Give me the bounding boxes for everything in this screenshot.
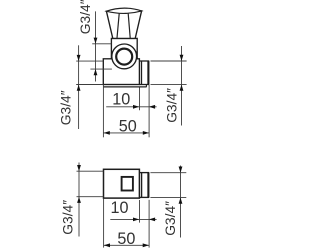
dim 50 arrow left bbox=[104, 131, 110, 135]
plan dim 10 line bbox=[110, 218, 156, 220]
plan dim 50 arrow left bbox=[104, 243, 110, 247]
union nut outer circle bbox=[112, 44, 137, 69]
union nut inner ring bbox=[116, 49, 132, 65]
svg-text:10: 10 bbox=[111, 199, 129, 217]
plan dim left line bbox=[78, 163, 80, 237]
plan dim 50 arrow right bbox=[143, 243, 149, 247]
plan dim 10 arrow right bbox=[133, 218, 139, 222]
ext line left upper bbox=[76, 60, 103, 62]
svg-text:50: 50 bbox=[117, 230, 135, 248]
plan dim right line bbox=[180, 166, 182, 238]
plan dim right arrow down bbox=[179, 167, 183, 173]
outlet flange inner edge bbox=[141, 61, 143, 85]
outlet stub top edge bbox=[139, 60, 149, 62]
ext line outlet bottom right bbox=[151, 84, 187, 86]
dim left arrow down bbox=[77, 55, 81, 61]
ext line nut bottom bbox=[90, 68, 112, 70]
handle inner facet left bbox=[117, 14, 119, 38]
dim right arrow down bbox=[180, 55, 184, 61]
plan dim right arrow up bbox=[179, 198, 183, 204]
ext line outlet end bbox=[148, 85, 150, 138]
dim 10 arrow left bbox=[149, 105, 155, 109]
svg-text:G3/4″: G3/4″ bbox=[58, 90, 73, 125]
dim left arrow up bbox=[77, 85, 81, 91]
dim right G3/4 line bbox=[181, 46, 183, 126]
svg-text:G3/4″: G3/4″ bbox=[78, 0, 93, 34]
svg-text:G3/4″: G3/4″ bbox=[61, 200, 76, 235]
svg-text:G3/4″: G3/4″ bbox=[165, 88, 180, 123]
dim nut G3/4 line bbox=[95, 11, 97, 81]
dim 10 arrow right bbox=[133, 105, 139, 109]
plan ext outlet root bbox=[139, 200, 141, 223]
valve bonnet collar bbox=[111, 38, 137, 58]
base plate right edge bbox=[145, 85, 147, 88]
plan body bbox=[104, 169, 140, 198]
ext line collar bottom bbox=[92, 43, 111, 45]
svg-text:10: 10 bbox=[112, 91, 130, 109]
dim 50 line bbox=[104, 132, 150, 134]
ext line body left lower bbox=[102, 85, 104, 138]
plan ext right lower bbox=[150, 197, 186, 199]
plan ext right upper bbox=[150, 172, 186, 174]
plan dim left arrow down bbox=[77, 165, 81, 171]
plan dim 10 arrow left bbox=[149, 218, 155, 222]
plan ext left lower bbox=[77, 196, 104, 198]
plan outlet bottom edge bbox=[139, 196, 149, 198]
plan outlet top edge bbox=[139, 172, 149, 174]
plan outlet end face (thick) bbox=[147, 172, 149, 198]
plan ext body left bbox=[103, 198, 105, 247]
svg-text:G3/4″: G3/4″ bbox=[163, 201, 178, 236]
ext line outlet top right bbox=[151, 60, 187, 62]
plan ext left upper bbox=[77, 170, 104, 172]
dim left G3/4 line bbox=[78, 45, 80, 129]
plan dim left arrow up bbox=[77, 197, 81, 203]
outlet stub bottom edge bbox=[139, 84, 149, 86]
dim nut arrow down bbox=[94, 38, 98, 44]
handle knob trapezoid bbox=[106, 11, 141, 39]
plan stem square bbox=[122, 177, 133, 191]
ext line left lower bbox=[76, 84, 103, 86]
handle inner facet right bbox=[128, 14, 130, 38]
svg-text:50: 50 bbox=[119, 118, 137, 136]
dim 50 arrow right bbox=[143, 131, 149, 135]
valve body bbox=[103, 59, 139, 85]
dim 10 line bbox=[106, 106, 156, 108]
plan outlet flange inner edge bbox=[141, 173, 143, 198]
base plate bottom line bbox=[103, 86, 146, 88]
plan dim 50 line bbox=[104, 244, 149, 246]
plan ext outlet end bbox=[148, 200, 150, 248]
ext line outlet root bbox=[139, 88, 141, 111]
dim right arrow up bbox=[180, 85, 184, 91]
handle top lens bbox=[106, 8, 141, 13]
dim nut arrow up bbox=[94, 69, 98, 75]
outlet end face (thick) bbox=[147, 61, 149, 85]
